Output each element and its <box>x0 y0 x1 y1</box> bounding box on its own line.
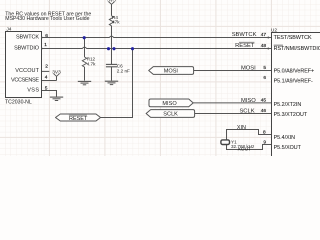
svg-text:4: 4 <box>45 74 48 80</box>
svg-text:P5.4/XIN: P5.4/XIN <box>274 135 296 141</box>
wire SBWTDIO/RESET net (J4 pin1 to U2 pin48, hop over R12 leg at x=84.5) <box>41 47 271 48</box>
svg-text:5: 5 <box>45 86 48 92</box>
wire SBWTCK net (J4 pin6 to U2 pin47, hop over R4 leg at x=111.5) <box>41 36 271 37</box>
svg-text:VCCSENSE: VCCSENSE <box>11 77 39 83</box>
svg-text:2: 2 <box>45 64 48 70</box>
ground symbol at C6 <box>105 81 118 84</box>
resistor R4 <box>109 16 113 26</box>
power symbol 3V3 at VCCSENSE <box>52 70 61 81</box>
svg-text:MISO: MISO <box>241 98 256 104</box>
wire VSS to ground <box>41 91 57 97</box>
svg-text:SBWTCK: SBWTCK <box>232 32 257 38</box>
svg-text:P5.0/A8/VeREF+: P5.0/A8/VeREF+ <box>274 69 315 75</box>
svg-text:P5.5/XOUT: P5.5/XOUT <box>274 145 302 151</box>
svg-text:3V3: 3V3 <box>52 70 61 76</box>
svg-text:5: 5 <box>263 65 266 71</box>
svg-text:RESET: RESET <box>69 116 88 122</box>
svg-text:48: 48 <box>261 43 267 49</box>
svg-text:P5.2/XT2IN: P5.2/XT2IN <box>274 102 302 108</box>
crystal Y1 <box>221 139 255 149</box>
wire C6 top leg <box>111 49 113 65</box>
svg-text:SBWTCK: SBWTCK <box>16 35 39 41</box>
junction dot SBWTDIO/R4 <box>112 47 115 50</box>
J4 pin names <box>11 35 40 94</box>
wire R12 bottom leg to ground <box>84 67 86 81</box>
svg-text:6: 6 <box>45 33 48 39</box>
wire MISO net <box>193 102 271 104</box>
svg-text:MISO: MISO <box>162 101 177 107</box>
wire MOSI net <box>194 70 271 72</box>
svg-text:SBWTDIO: SBWTDIO <box>14 46 40 52</box>
U2 pin direction arrows <box>268 36 271 49</box>
IC U2 box <box>272 33 320 159</box>
note text <box>5 11 91 22</box>
junction dot SBWTDIO/RESET riser <box>131 47 134 50</box>
svg-text:9: 9 <box>263 139 266 145</box>
svg-text:8: 8 <box>263 129 266 135</box>
svg-text:46: 46 <box>261 108 267 114</box>
resistor R12 <box>82 57 86 67</box>
wire R12 top leg from SBWTCK junction <box>84 38 86 58</box>
svg-text:MOSI: MOSI <box>164 69 179 75</box>
svg-text:P5.3/XT2OUT: P5.3/XT2OUT <box>274 112 308 118</box>
power symbol 3V3 above R4 <box>107 0 116 4</box>
svg-text:2.2 nF: 2.2 nF <box>117 68 130 73</box>
junction dot SBWTDIO/C6 <box>107 47 110 50</box>
svg-text:6: 6 <box>263 75 266 81</box>
net flag MOSI <box>149 67 194 75</box>
svg-text:SCLK: SCLK <box>163 112 178 118</box>
net flag MISO <box>149 99 193 107</box>
svg-text:RST/NMI/SBWTDIO: RST/NMI/SBWTDIO <box>274 46 320 52</box>
svg-text:3V3: 3V3 <box>107 0 116 4</box>
ground symbol at R12 <box>78 81 91 84</box>
svg-text:XOUT: XOUT <box>238 147 252 153</box>
svg-text:P5.1/A9/VeREF-: P5.1/A9/VeREF- <box>274 78 313 84</box>
svg-text:47: 47 <box>261 32 267 38</box>
svg-text:XIN: XIN <box>237 125 246 131</box>
svg-text:J4: J4 <box>6 26 11 32</box>
wire SCLK net <box>195 113 271 115</box>
ground symbol at VSS <box>50 97 63 100</box>
wire R4 top leg from 3V3 <box>111 4 113 16</box>
svg-text:MSP430 Hardware Tools User Gui: MSP430 Hardware Tools User Guide <box>5 16 89 22</box>
svg-text:VSS: VSS <box>27 87 39 93</box>
svg-text:TC2030-NL: TC2030-NL <box>5 99 32 105</box>
J4 pin numbers <box>44 33 48 92</box>
svg-text:MOSI: MOSI <box>241 65 256 71</box>
wire VCCOUT pin stub <box>41 70 49 72</box>
svg-text:VCCOUT: VCCOUT <box>15 68 39 74</box>
junction dot SBWTCK/R12 <box>83 36 86 39</box>
svg-text:SCLK: SCLK <box>239 108 254 114</box>
svg-text:45: 45 <box>261 98 267 104</box>
svg-text:1: 1 <box>44 42 47 48</box>
svg-text:TEST/SBWTCK: TEST/SBWTCK <box>274 35 312 41</box>
U2 pin numbers <box>261 32 267 145</box>
J4 pin direction arrows <box>41 36 43 49</box>
net flag RESET <box>56 114 101 122</box>
svg-text:RESET: RESET <box>235 43 255 49</box>
capacitor C6 <box>106 64 117 66</box>
U2 pin names <box>274 35 320 151</box>
svg-text:4.7k: 4.7k <box>87 61 96 66</box>
wire C6 bottom leg to ground <box>111 67 113 81</box>
connector J4 box <box>6 32 42 98</box>
net flag SCLK <box>146 110 195 118</box>
svg-text:47k: 47k <box>112 19 120 24</box>
wire R4 bottom leg to SBWTDIO junction <box>111 26 113 49</box>
wire XOUT net <box>227 145 272 150</box>
svg-text:U2: U2 <box>271 28 277 34</box>
wire VCCSENSE to 3V3 <box>41 80 57 82</box>
U2 RST overline <box>274 44 283 46</box>
wire RESET flag riser <box>101 49 133 118</box>
wire XIN net <box>227 130 272 140</box>
